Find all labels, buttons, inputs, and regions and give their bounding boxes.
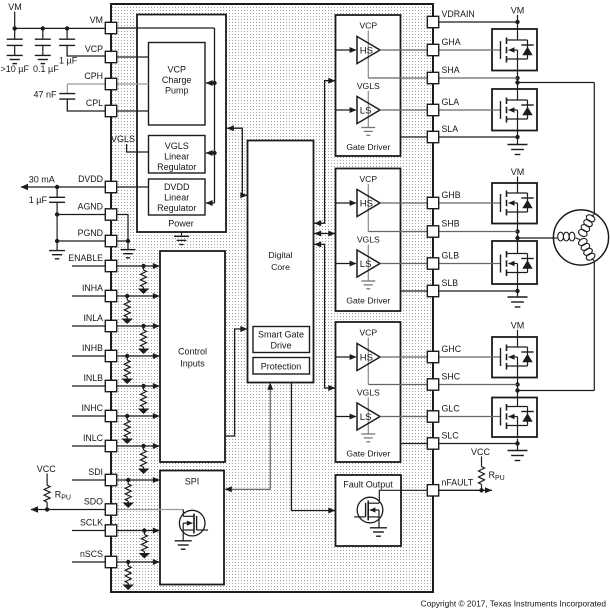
svg-text:GHC: GHC (442, 344, 462, 354)
wire PGND internal (117, 240, 128, 242)
wire Digital Core to Fault Output (291, 383, 334, 511)
arrow into VGLS regulator (206, 152, 215, 154)
arrow INHC pulldown to ground (121, 439, 133, 445)
wire GHB output (380, 202, 427, 204)
capacitor C1 >10 uF bulk cap (14, 28, 16, 39)
ground half-bridge C (508, 450, 528, 452)
pin GHC (427, 351, 438, 362)
wire nFAULT external (439, 489, 492, 491)
wire nSCS pin to SPI (117, 561, 160, 563)
block: Power section (137, 15, 226, 233)
wire SHA pin to phase A node (439, 77, 518, 79)
junction nSCS pulldown (126, 560, 130, 564)
ground for Power block (181, 232, 183, 236)
pin VDRAIN (427, 16, 438, 27)
wire phase B switch node (517, 224, 519, 241)
wire SLB pin to Q4 source (439, 290, 518, 292)
junction on VM rail at C1 (13, 26, 17, 30)
svg-text:Gate Driver: Gate Driver (346, 296, 390, 306)
svg-text:SPI: SPI (185, 477, 200, 487)
wire INHB pin to Control Inputs (117, 355, 160, 357)
wire INLA pin to Control Inputs (117, 325, 160, 327)
svg-text:VGLS: VGLS (165, 141, 189, 151)
wire AGND pin to ground (57, 214, 105, 216)
svg-text:INLA: INLA (83, 313, 103, 323)
wire SDO to SPI output transistor (117, 509, 184, 511)
wire stub INHC (72, 415, 105, 417)
svg-text:INHC: INHC (81, 403, 103, 413)
wire ENABLE pin to Control Inputs (117, 265, 160, 267)
wire INLC pin to Control Inputs (117, 445, 160, 447)
svg-text:Protection: Protection (261, 362, 302, 372)
wire SCLK pin to SPI (117, 530, 160, 532)
svg-text:GLC: GLC (442, 404, 461, 414)
ground for C1 (7, 54, 23, 56)
block: Digital Core (248, 141, 314, 383)
svg-text:LS: LS (360, 105, 372, 116)
pin INHC (105, 410, 116, 421)
block: Gate Driver B (336, 169, 401, 312)
wire VGLS rail in gate driver A (367, 91, 369, 128)
svg-text:CPH: CPH (84, 71, 103, 81)
svg-text:VGLS: VGLS (357, 235, 380, 245)
junction nFAULT pull-up (479, 488, 483, 492)
wire stub ENABLE (72, 265, 105, 267)
wire INHA pin to Control Inputs (117, 295, 160, 297)
wire phase B to motor (518, 237, 554, 239)
pin SCLK (105, 525, 116, 536)
svg-text:AGND: AGND (78, 202, 103, 212)
svg-text:Fault Output: Fault Output (343, 480, 393, 490)
wire VCP rail in gate driver C (367, 338, 369, 385)
pin GHA (427, 44, 438, 55)
resistor RPU (nFAULT pull-up) (479, 467, 485, 485)
resistor INHB internal pulldown (126, 356, 128, 360)
wire motor phase A vertical (593, 83, 595, 216)
wire VGLS rail in gate driver B (367, 245, 369, 282)
wire motor phase C vertical (593, 261, 595, 391)
wire SHB return (368, 231, 427, 233)
svg-text:Control: Control (178, 347, 207, 357)
wire C3 to VCP pin (67, 45, 105, 56)
wire GLB output (380, 263, 427, 265)
svg-text:Inputs: Inputs (180, 359, 205, 369)
svg-text:VGLS: VGLS (357, 81, 380, 91)
wire input to HS A (336, 49, 356, 51)
arrow INLA pulldown to ground (138, 349, 150, 355)
wire SLA to pin (401, 136, 428, 138)
svg-text:Regulator: Regulator (157, 162, 196, 172)
wire stub INLC (72, 445, 105, 447)
wire Power to Digital Core (bidirectional) (227, 128, 247, 195)
pin GLA (427, 104, 438, 115)
svg-text:Digital: Digital (268, 250, 292, 260)
wire CPH pin to charge pump (117, 83, 149, 85)
wire SHC pin to phase C node (439, 384, 518, 386)
motor M1 (3-phase BLDC) (553, 210, 608, 265)
wire VM pin into power section feedback rail (117, 27, 215, 29)
resistor SCLK internal pulldown (143, 531, 145, 535)
block: VCP Charge Pump (149, 43, 206, 126)
pin nFAULT (427, 485, 438, 496)
wire phase C to motor (518, 390, 595, 392)
IC body (gate driver device, dotted fill) (111, 4, 433, 592)
junction on VM rail at C3 (65, 26, 69, 30)
junction INLB pulldown (141, 384, 145, 388)
pin SLC (427, 438, 438, 449)
pin SDI (105, 474, 116, 485)
arrow SDI pulldown to ground (122, 503, 134, 509)
ground half-bridge B (508, 296, 528, 298)
junction INHB pulldown (125, 354, 129, 358)
svg-text:Drive: Drive (270, 341, 291, 351)
wire INHC pin to Control Inputs (117, 415, 160, 417)
wire GLA output (380, 109, 427, 111)
svg-text:SHC: SHC (442, 372, 461, 382)
transistor Q5 (power NMOS with body diode) (492, 337, 537, 378)
pin SLB (427, 285, 438, 296)
svg-text:PU: PU (495, 475, 505, 482)
svg-text:nSCS: nSCS (80, 549, 103, 559)
block: Protection (253, 358, 310, 375)
wire Q4 source to ground (517, 284, 519, 297)
svg-text:DVDD: DVDD (78, 174, 103, 184)
op-amp HS buffer A (357, 36, 380, 63)
capacitor C5 1 uF on DVDD (56, 187, 58, 197)
wire DVDD pin to DVDD regulator (117, 186, 149, 188)
wire Digital Core to SPI (bidirectional) (225, 383, 270, 489)
svg-text:SHB: SHB (442, 219, 460, 229)
transistor Q4 (power NMOS with body diode) (492, 241, 537, 284)
svg-text:GLA: GLA (442, 97, 460, 107)
svg-text:SLA: SLA (442, 124, 459, 134)
svg-text:INLB: INLB (83, 373, 103, 383)
ground in gate driver C (361, 433, 375, 435)
svg-text:Smart Gate: Smart Gate (258, 330, 304, 340)
svg-text:VGLS: VGLS (357, 388, 380, 398)
svg-text:VDRAIN: VDRAIN (442, 9, 475, 19)
svg-text:30 mA: 30 mA (29, 175, 55, 185)
svg-text:VCP: VCP (359, 21, 377, 31)
arrow into DVDD regulator (206, 202, 215, 204)
pin SDO (105, 504, 116, 515)
svg-text:HS: HS (360, 198, 373, 209)
svg-text:PU: PU (61, 495, 71, 502)
pin AGND (105, 209, 116, 220)
pin CPL (105, 105, 116, 116)
svg-text:DVDD: DVDD (164, 182, 190, 192)
pin INLB (105, 380, 116, 391)
svg-text:GHA: GHA (442, 37, 461, 47)
svg-text:CPL: CPL (86, 98, 103, 108)
pin VM (105, 22, 116, 33)
transistor Q6 (power NMOS with body diode) (492, 398, 537, 438)
arrow INHA pulldown to ground (121, 319, 133, 325)
op-amp HS buffer B (357, 189, 380, 216)
wire nFAULT drain to pin (379, 490, 427, 503)
wire Q6 source to ground (517, 439, 519, 451)
resistor INLB internal pulldown (143, 386, 145, 390)
wire SLC pin to Q6 source (439, 443, 518, 445)
wire GLC output (380, 416, 427, 418)
wire stub SDI (72, 479, 105, 481)
capacitor C2 0.1 uF (42, 28, 44, 39)
transistor nFAULT open-drain NMOS (357, 497, 383, 523)
svg-text:Pump: Pump (165, 86, 189, 96)
junction INLC pulldown (141, 444, 145, 448)
svg-text:GHB: GHB (442, 190, 461, 200)
wire CPL pin to charge pump (117, 110, 149, 112)
wire Digital Core to Gate Driver A (bidirectional) (314, 81, 335, 224)
ground for AGND/PGND (external) (49, 250, 65, 252)
wire input to HS B (336, 202, 356, 204)
svg-text:VM: VM (511, 321, 525, 331)
junction on VM rail at C2 (41, 26, 45, 30)
resistor INHC internal pulldown (126, 416, 128, 420)
svg-text:Copyright © 2017, Texas Instru: Copyright © 2017, Texas Instruments Inco… (421, 599, 607, 609)
svg-text:ENABLE: ENABLE (68, 253, 103, 263)
wire GHC pin to Q5 gate (439, 356, 492, 358)
svg-text:GLB: GLB (442, 251, 460, 261)
block: Gate Driver A (336, 15, 401, 156)
wire VM supply rail to VM pin (15, 27, 106, 29)
wire GLA pin to Q2 gate (439, 109, 492, 111)
pin SLA (427, 131, 438, 142)
block: Control Inputs (160, 251, 225, 462)
svg-text:INHA: INHA (82, 283, 103, 293)
pin INHA (105, 290, 116, 301)
transistor Q1 (power NMOS with body diode) (492, 29, 537, 71)
svg-text:nFAULT: nFAULT (442, 477, 474, 487)
wire SDO output (to host, left arrow) (31, 509, 105, 511)
svg-text:Gate Driver: Gate Driver (346, 449, 390, 459)
pin INLA (105, 320, 116, 331)
svg-text:VCP: VCP (85, 44, 103, 54)
wire stub INLB (72, 385, 105, 387)
power feedback vertical rail (214, 28, 216, 203)
pin SHA (427, 72, 438, 83)
svg-text:SLC: SLC (442, 431, 460, 441)
wire SHB pin to phase B node (439, 231, 518, 233)
wire SLC to pin (401, 443, 428, 445)
wire stub SCLK (72, 530, 105, 532)
block: Fault Output (336, 475, 402, 546)
wire input to HS C (336, 356, 356, 358)
junction SDO/RPU (45, 507, 49, 511)
wire Digital Core to Gate Driver C (bidirectional) (314, 244, 335, 388)
capacitor C4 47 nF (CPH-CPL flying cap) (67, 83, 105, 85)
svg-text:VM: VM (511, 167, 525, 177)
resistor INLA internal pulldown (143, 326, 145, 330)
wire stub nSCS (72, 561, 105, 563)
pin INHB (105, 350, 116, 361)
junction SDI pulldown (126, 478, 130, 482)
ground in gate driver B (361, 280, 375, 282)
wire VCP rail in gate driver A (367, 31, 369, 79)
wire Digital Core to Gate Driver B (bidirectional) (314, 233, 335, 235)
svg-text:INHB: INHB (82, 343, 103, 353)
wire VDRAIN to VM rail (439, 21, 518, 23)
svg-text:VM: VM (90, 15, 103, 25)
wire stub INHB (72, 355, 105, 357)
svg-text:HS: HS (360, 45, 373, 56)
pin ENABLE (105, 260, 116, 271)
transistor Q3 (power NMOS with body diode) (492, 183, 537, 224)
pin INLC (105, 440, 116, 451)
svg-text:PGND: PGND (78, 228, 103, 238)
wire DVDD output with 30 mA arrow (21, 186, 105, 188)
block: DVDD Linear Regulator (149, 179, 206, 215)
block: Smart Gate Drive (253, 327, 310, 353)
block: Gate Driver C (336, 322, 401, 462)
wire SDI pin to SPI (117, 479, 160, 481)
svg-text:LS: LS (360, 259, 372, 270)
arrow into VCP charge pump (206, 82, 215, 84)
wire INLB pin to Control Inputs (117, 385, 160, 387)
junction ENABLE pulldown (141, 264, 145, 268)
arrow nSCS pulldown to ground (122, 585, 134, 591)
pin VCP (105, 51, 116, 62)
wire GLC pin to Q6 gate (439, 416, 492, 418)
resistor ENABLE internal pulldown (143, 266, 145, 270)
svg-text:Regulator: Regulator (157, 203, 196, 213)
transistor SPI SDO open-drain NMOS (179, 510, 205, 536)
svg-text:LS: LS (360, 412, 372, 423)
svg-text:VM: VM (511, 6, 525, 16)
resistor SDI internal pulldown (127, 480, 129, 484)
wire phase A to motor (518, 82, 595, 84)
svg-text:SLB: SLB (442, 278, 459, 288)
wire Q2 source to ground (517, 131, 519, 145)
svg-text:Charge: Charge (162, 75, 192, 85)
wire VCP rail in gate driver B (367, 184, 369, 232)
resistor RPU (SDO pull-up) (44, 485, 50, 502)
transistor Q2 (power NMOS with body diode) (492, 89, 537, 131)
svg-text:47 nF: 47 nF (33, 90, 57, 100)
ground for C2 (35, 54, 51, 56)
svg-text:Gate Driver: Gate Driver (346, 142, 390, 152)
junction INHA pulldown (125, 294, 129, 298)
wire GHB pin to Q3 gate (439, 202, 492, 204)
resistor INLC internal pulldown (143, 446, 145, 450)
svg-text:Core: Core (271, 262, 290, 272)
wire AGND internal (117, 215, 128, 242)
capacitor C3 1 uF (VM to VCP) (66, 28, 68, 39)
pin GHB (427, 197, 438, 208)
arrow INLC pulldown to ground (138, 469, 150, 475)
arrow INLB pulldown to ground (138, 409, 150, 415)
wire CPL flying cap to CPL pin (67, 99, 105, 111)
wire GHA output (380, 49, 427, 51)
op-amp LS buffer A (357, 96, 380, 123)
wire input to LS A (336, 109, 356, 111)
svg-text:VCC: VCC (37, 464, 57, 474)
svg-text:Linear: Linear (164, 152, 189, 162)
ground in gate driver A (361, 127, 375, 129)
wire input to LS C (336, 416, 356, 418)
wire stub INHA (72, 295, 105, 297)
svg-text:VGLS: VGLS (111, 134, 135, 144)
wire GLB pin to Q4 gate (439, 263, 492, 265)
svg-text:SDO: SDO (84, 497, 103, 507)
junction SCLK pulldown (142, 528, 146, 532)
svg-text:SHA: SHA (442, 65, 460, 75)
wire VGLS rail in gate driver C (367, 398, 369, 435)
svg-text:SCLK: SCLK (80, 518, 103, 528)
wire phase C switch node (517, 378, 519, 398)
svg-text:>10 µF: >10 µF (1, 64, 30, 74)
junction INHC pulldown (125, 414, 129, 418)
block: SPI (160, 471, 224, 585)
block: VGLS Linear Regulator (149, 136, 206, 174)
ground half-bridge A (508, 144, 528, 146)
wire GHC output (380, 356, 427, 358)
arrow ENABLE pulldown to ground (138, 289, 150, 295)
svg-text:INLC: INLC (83, 433, 104, 443)
pin SHC (427, 379, 438, 390)
wire input to LS B (336, 263, 356, 265)
op-amp LS buffer C (357, 403, 380, 430)
svg-text:Linear: Linear (164, 193, 189, 203)
pin PGND (105, 235, 116, 246)
pin nSCS (105, 556, 116, 567)
wire phase A switch node (517, 71, 519, 90)
ground for SPI transistor (175, 540, 192, 542)
wire stub INLA (72, 325, 105, 327)
wire PGND pin to ground (57, 240, 105, 242)
pin GLC (427, 411, 438, 422)
op-amp HS buffer C (357, 343, 380, 370)
wire SLA pin to Q2 source (439, 136, 518, 138)
svg-text:VCP: VCP (167, 65, 186, 75)
wire Control Inputs to Digital Core (226, 329, 247, 436)
op-amp LS buffer B (357, 250, 380, 277)
svg-text:HS: HS (360, 352, 373, 363)
ground for fault transistor (370, 527, 387, 529)
wire SHC return (368, 384, 427, 386)
svg-text:1 µF: 1 µF (59, 56, 78, 66)
wire SLB to pin (401, 290, 428, 292)
pin CPH (105, 78, 116, 89)
svg-text:VCP: VCP (359, 174, 377, 184)
svg-text:VCP: VCP (359, 328, 377, 338)
pin DVDD (105, 181, 116, 192)
arrow INHB pulldown to ground (121, 379, 133, 385)
svg-text:Power: Power (168, 219, 194, 229)
arrow SCLK pulldown to ground (139, 553, 151, 559)
junction DVDD at C5 (55, 185, 59, 189)
wire GHA pin to Q1 gate (439, 49, 492, 51)
svg-text:1 µF: 1 µF (29, 195, 48, 205)
resistor INHA internal pulldown (126, 296, 128, 300)
ground internal (AGND/PGND) (121, 249, 136, 251)
junction INLA pulldown (141, 324, 145, 328)
resistor nSCS internal pulldown (127, 562, 129, 566)
svg-text:0.1 µF: 0.1 µF (33, 64, 59, 74)
pin SHB (427, 226, 438, 237)
pin GLB (427, 258, 438, 269)
svg-text:VCC: VCC (471, 447, 491, 457)
svg-text:VM: VM (8, 2, 22, 12)
wire VCP pin to charge pump (117, 56, 149, 58)
wire SHA return (368, 77, 427, 79)
svg-text:SDI: SDI (88, 467, 103, 477)
